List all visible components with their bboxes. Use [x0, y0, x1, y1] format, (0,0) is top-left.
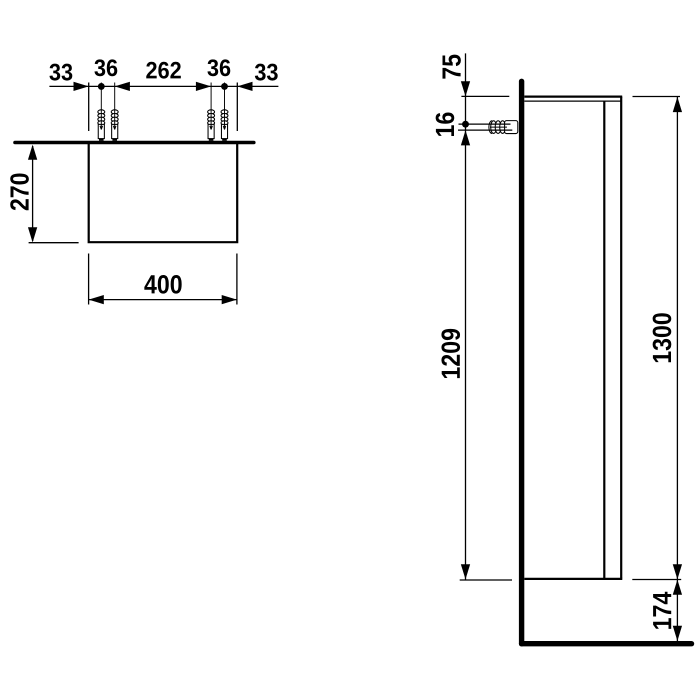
label 174: [653, 592, 671, 629]
label 1209: [441, 329, 460, 378]
wire: extension of cabinet bottom to the right (174): [632, 579, 681, 581]
arrow dim1209 bottom pointing down: [461, 564, 470, 579]
screw S4 tip block: [222, 139, 227, 141]
wall post (thick vertical): [519, 81, 524, 643]
node: dot terminator at screw1: [98, 83, 105, 90]
label 16: [436, 113, 455, 136]
dim 1300/174 vertical line: [676, 97, 678, 643]
label 1300: [653, 313, 672, 362]
dim 270 vertical line: [32, 146, 34, 241]
cabinet door face (right edge): [620, 97, 622, 579]
screw S2 centerline: [113, 83, 116, 130]
node: dot terminator at screw4: [221, 83, 228, 90]
dim 400 horizontal line: [89, 299, 237, 301]
label 270: [10, 173, 29, 210]
screw S4 (top view, dowel): [221, 110, 228, 139]
screw S1 centerline: [100, 83, 103, 130]
arrow dim16 pointing up: [461, 130, 470, 145]
wire: extension below cabinet left corner: [88, 254, 90, 305]
arrow dim33L pointing right: [74, 82, 89, 91]
wire: extension of cabinet top to the right (1300): [633, 96, 681, 98]
wire: extension line cabinet right edge: [236, 83, 238, 132]
wire: shared dim line 75/16/1209: [465, 53, 467, 579]
arrow dim400 right pointing right: [222, 295, 237, 304]
screw S2 (top view, dowel): [111, 110, 118, 139]
arrow dim174 top pointing up: [673, 580, 682, 595]
arrow dim400 left pointing left: [89, 295, 104, 304]
arrow dim174 bottom pointing down: [673, 626, 682, 641]
label 33 right: [255, 64, 278, 81]
wire: extension of cabinet top to the left (75): [461, 95, 509, 97]
label 36 left: [94, 59, 117, 76]
floor line (thick horizontal): [522, 641, 692, 646]
wire: extension below cabinet right corner: [236, 254, 238, 305]
wire: screw axis line (16 upper): [459, 123, 511, 125]
screw S3 (top view, dowel): [208, 110, 215, 139]
wire: top dimension chain line: [49, 85, 278, 87]
screw S1 (top view, dowel): [98, 110, 105, 139]
screw S1 tip block: [99, 139, 104, 141]
arrow dim36L pointing left: [115, 82, 130, 91]
wall line (left view, thick): [15, 141, 254, 145]
label 400: [144, 275, 181, 294]
arrow dim270 top pointing up: [28, 145, 37, 160]
arrow dim33R pointing left: [237, 82, 252, 91]
screw S3 centerline: [210, 83, 213, 130]
cabinet bottom edge (side view): [524, 578, 622, 580]
arrow dim262 right pointing right: [196, 82, 211, 91]
arrow dim1300 bottom pointing down: [673, 564, 682, 579]
arrow dim75 pointing down: [461, 81, 470, 96]
arrow dim1300 top pointing up: [673, 97, 682, 112]
screw side view (hanger bolt in wall): [489, 121, 518, 134]
screw S2 tip block: [112, 139, 117, 141]
cabinet top edge (side view): [524, 95, 622, 97]
cabinet top inner thin line: [524, 100, 621, 102]
node: dot terminator dim16: [462, 121, 469, 128]
cabinet body rectangle (top view): [89, 143, 238, 242]
label 262: [146, 62, 181, 79]
screw S3 tip block: [209, 139, 214, 141]
wire: 16 lower line: [458, 129, 512, 131]
wire: extension line cabinet left edge: [88, 83, 90, 132]
arrow dim270 bottom pointing down: [28, 227, 37, 242]
screw S4 centerline: [223, 83, 226, 130]
label 33 left: [49, 64, 72, 81]
wire: extension of cabinet bottom to the left: [29, 242, 79, 244]
label 75: [443, 55, 461, 79]
label 36 right: [207, 59, 230, 76]
cabinet carcass front vertical: [603, 101, 605, 578]
wire: extension of cabinet bottom to the left (1209): [460, 579, 512, 581]
